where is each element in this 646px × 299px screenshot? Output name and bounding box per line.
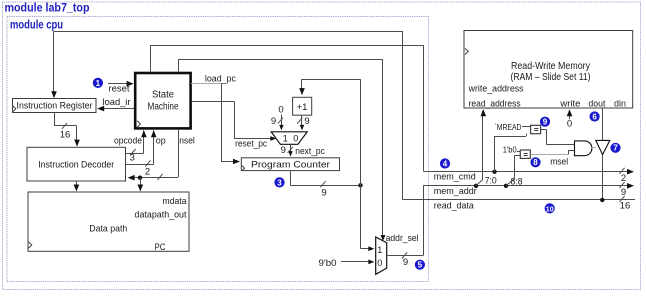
svg-text:0: 0: [293, 133, 298, 143]
svg-text:9: 9: [621, 187, 626, 198]
svg-text:Machine: Machine: [148, 102, 179, 113]
svg-text:=: =: [534, 126, 539, 135]
svg-text:module lab7_top: module lab7_top: [5, 3, 90, 15]
svg-text:6: 6: [592, 112, 597, 121]
svg-text:op: op: [156, 135, 166, 146]
svg-text:9: 9: [543, 118, 548, 127]
svg-text:0: 0: [377, 258, 382, 268]
svg-text:7: 7: [613, 144, 618, 153]
svg-text:10: 10: [546, 206, 554, 213]
svg-text:load_pc: load_pc: [205, 74, 236, 85]
svg-text:mem_cmd: mem_cmd: [434, 171, 476, 182]
svg-text:8: 8: [533, 158, 538, 167]
svg-text:2: 2: [621, 173, 626, 184]
svg-text:9: 9: [304, 116, 309, 127]
svg-text:9: 9: [403, 257, 408, 268]
svg-text:8:8: 8:8: [511, 176, 523, 186]
svg-text:(RAM – Slide Set 11): (RAM – Slide Set 11): [511, 72, 591, 83]
svg-text:1: 1: [283, 133, 288, 143]
svg-text:1: 1: [377, 245, 382, 255]
svg-text:9: 9: [321, 188, 326, 199]
svg-text:3: 3: [130, 153, 135, 164]
svg-text:1'b0: 1'b0: [503, 145, 517, 155]
svg-text:0: 0: [278, 105, 283, 116]
svg-text:3: 3: [277, 178, 282, 187]
svg-text:reset_pc: reset_pc: [235, 139, 267, 150]
svg-text:Read-Write Memory: Read-Write Memory: [511, 61, 590, 72]
svg-text:Program Counter: Program Counter: [251, 159, 330, 170]
svg-text:16: 16: [620, 201, 631, 212]
svg-text:0: 0: [567, 119, 572, 130]
svg-text:mdata: mdata: [163, 196, 188, 207]
svg-text:2: 2: [145, 167, 150, 178]
svg-text:7:0: 7:0: [485, 176, 497, 186]
svg-text:Instruction Decoder: Instruction Decoder: [38, 160, 114, 170]
svg-text:write_address: write_address: [468, 84, 524, 95]
svg-text:datapath_out: datapath_out: [135, 209, 187, 220]
svg-text:msel: msel: [550, 156, 568, 167]
svg-text:5: 5: [418, 261, 423, 270]
svg-text:read_data: read_data: [434, 200, 475, 211]
svg-text:module cpu: module cpu: [10, 20, 63, 32]
svg-text:+1: +1: [297, 102, 308, 113]
svg-text:9: 9: [281, 145, 286, 156]
svg-text:State: State: [152, 90, 175, 101]
svg-text:4: 4: [443, 159, 448, 168]
svg-text:reset: reset: [109, 84, 130, 95]
svg-text:Instruction Register: Instruction Register: [17, 101, 93, 111]
svg-text:read_address: read_address: [469, 99, 521, 110]
svg-text:dout: dout: [588, 99, 605, 110]
svg-text:9: 9: [271, 116, 276, 127]
svg-text:Data path: Data path: [89, 223, 127, 234]
svg-text:mem_addr: mem_addr: [434, 186, 477, 197]
svg-text:din: din: [614, 99, 626, 110]
svg-text:PC: PC: [155, 242, 166, 253]
svg-text:16: 16: [60, 130, 71, 141]
svg-text:9'b0: 9'b0: [319, 258, 337, 269]
svg-text:write: write: [559, 99, 580, 110]
svg-text:1: 1: [96, 79, 101, 88]
svg-text:addr_sel: addr_sel: [386, 233, 419, 244]
svg-text:`MREAD: `MREAD: [495, 122, 522, 132]
svg-text:load_ir: load_ir: [103, 97, 131, 108]
svg-text:=: =: [523, 150, 528, 159]
svg-text:nsel: nsel: [179, 135, 195, 146]
svg-text:next_pc: next_pc: [295, 146, 325, 157]
svg-text:opcode: opcode: [114, 135, 142, 146]
